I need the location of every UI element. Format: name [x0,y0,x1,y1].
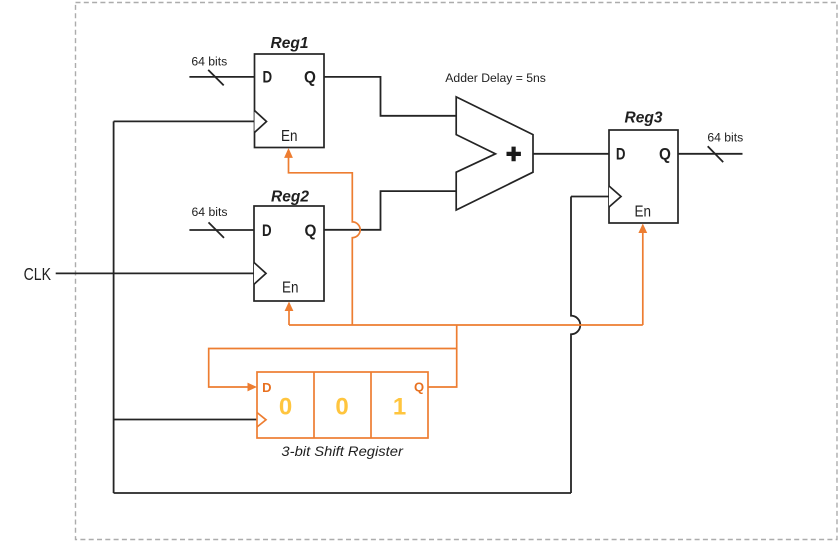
svg-text:Adder Delay = 5ns: Adder Delay = 5ns [445,71,546,85]
wire Reg2 Q to adder bottom input [324,191,456,230]
orange enable bus [289,324,643,326]
svg-text:0: 0 [335,394,348,421]
node CLK [24,264,52,284]
3-bit shift register [257,372,428,459]
svg-text:Q: Q [659,145,671,163]
svg-text:1: 1 [393,394,406,421]
wire Reg3 Q output 64-bit [678,131,743,163]
wire right clock vertical with hop over enable bus [571,197,580,494]
svg-text:En: En [281,128,298,145]
svg-text:3-bit Shift Register: 3-bit Shift Register [281,443,404,459]
register Reg3 [609,110,678,224]
svg-text:D: D [263,69,273,87]
svg-text:D: D [262,380,271,395]
wire Reg1 clock branch [114,120,255,122]
orange Reg3 En arrow [638,224,647,326]
svg-text:64 bits: 64 bits [191,54,227,68]
wire Reg1 Q to adder top input [324,77,456,116]
wire CLK vertical trunk [113,121,115,493]
svg-text:Reg1: Reg1 [271,35,309,52]
svg-text:En: En [282,279,299,296]
svg-text:0: 0 [279,394,292,421]
svg-text:Reg2: Reg2 [271,189,309,206]
wire adder output to Reg3 D [533,153,609,155]
wire bottom clock run [114,492,571,494]
svg-text:Q: Q [304,69,316,87]
svg-text:Q: Q [305,222,317,240]
orange feedback loop Q to D [209,349,457,392]
register Reg1 [255,35,325,148]
orange shift-register Q riser [428,325,457,387]
svg-text:Q: Q [414,380,424,395]
svg-text:64 bits: 64 bits [192,205,228,219]
wire Reg2 D input 64-bit [189,205,254,238]
orange Reg2 En arrow [285,302,294,326]
svg-text:64 bits: 64 bits [707,131,743,145]
adder U1 [445,71,546,210]
svg-text:CLK: CLK [24,264,52,284]
wire Reg3 clock branch [571,196,609,198]
orange Reg1 En branch with hop over Reg2 Q wire [284,148,360,325]
svg-text:D: D [262,222,272,240]
wire shift-register clock branch [114,419,257,421]
svg-text:Reg3: Reg3 [625,110,663,127]
register Reg2 [254,189,324,302]
svg-text:En: En [635,204,652,221]
wire Reg1 D input 64-bit [189,54,254,85]
wire CLK horizontal [56,272,254,274]
svg-text:D: D [616,145,626,163]
